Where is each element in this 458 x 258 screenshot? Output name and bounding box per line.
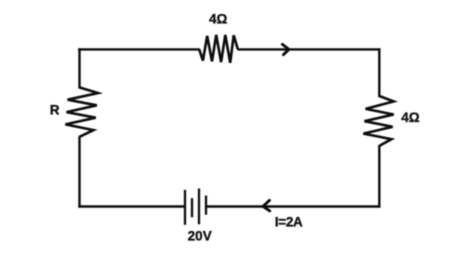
battery 20V plate 2 (short) (191, 198, 193, 217)
wire right side upper (378, 48, 380, 97)
svg-text:20V: 20V (188, 228, 212, 243)
wire right side lower (378, 145, 380, 207)
battery 20V plate 1 (long) (184, 190, 186, 225)
svg-text:4Ω: 4Ω (209, 12, 228, 27)
svg-text:I=2A: I=2A (275, 215, 303, 230)
wire bottom-right segment (206, 205, 381, 207)
resistor R left (65, 87, 98, 136)
wire top-left segment (78, 48, 200, 50)
battery 20V plate 4 (short) (205, 196, 207, 215)
resistor 4ohm right (363, 96, 393, 146)
current arrow bottom (pointing left) (263, 200, 270, 211)
wire left side upper (78, 48, 80, 88)
wire left side lower (78, 136, 80, 207)
svg-text:R: R (50, 103, 60, 118)
svg-text:4Ω: 4Ω (401, 110, 420, 125)
wire bottom-left segment (78, 205, 185, 207)
current arrow top (pointing right) (282, 44, 289, 54)
resistor 4ohm top (199, 35, 238, 63)
battery 20V plate 3 (long) (198, 189, 200, 225)
wire top-right segment (237, 48, 380, 50)
